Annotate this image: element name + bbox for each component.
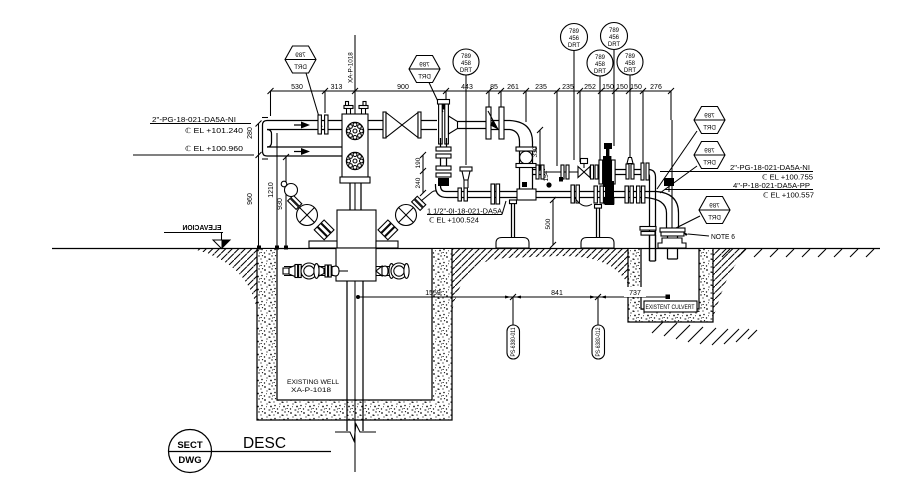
svg-text:330: 330 <box>532 146 539 157</box>
svg-text:ℂ EL +100.557: ℂ EL +100.557 <box>763 192 814 200</box>
hatch ticks along ground right <box>722 249 874 257</box>
instrument circle 789-456 DRT #1 <box>561 24 588 161</box>
vertical pipe with wafer valve <box>516 142 536 190</box>
existent culvert label box <box>644 301 697 312</box>
svg-text:252: 252 <box>584 84 596 91</box>
svg-text:313: 313 <box>331 84 343 91</box>
hatch wedge right of culvert <box>713 249 748 318</box>
wellhead centerline XA-P-1018 <box>348 35 356 472</box>
big header pipe y194 <box>452 192 656 198</box>
svg-text:900: 900 <box>397 84 409 91</box>
svg-text:EXISTENT CULVERT: EXISTENT CULVERT <box>646 304 695 311</box>
svg-text:4"-P-18-021-DA5A-PP: 4"-P-18-021-DA5A-PP <box>733 183 810 190</box>
small valve on header at 466 <box>460 167 472 188</box>
well casing below <box>347 281 363 431</box>
drain drop at 443 <box>436 138 453 198</box>
vertical dim 1210 <box>268 130 280 250</box>
wellhead flange bolts lower <box>346 152 363 169</box>
dimension labels top row <box>291 84 662 91</box>
capsule PS-6380-011 <box>507 297 520 359</box>
instrument circle 789-458 DRT #3 <box>587 50 613 168</box>
svg-text:150: 150 <box>630 84 642 91</box>
hatch band between pit and culvert <box>452 249 628 312</box>
riser support pad <box>658 238 686 248</box>
small valve at 630 <box>615 158 641 180</box>
svg-text:530: 530 <box>291 84 303 91</box>
svg-text:DRT: DRT <box>708 215 721 222</box>
instrument circle 789-458 DRT #4 <box>617 49 643 162</box>
svg-text:DRT: DRT <box>703 125 716 132</box>
section bubble SECT DWG <box>169 430 332 473</box>
svg-text:456: 456 <box>609 35 620 41</box>
hexagon tag 789 DRT right A <box>657 107 725 190</box>
hexagon tag 789 DRT #2 <box>409 56 443 113</box>
wellhead neck above lower body <box>350 183 361 210</box>
svg-text:ℂ EL +100.524: ℂ EL +100.524 <box>429 217 479 225</box>
svg-text:DRT: DRT <box>460 68 473 74</box>
svg-text:2"-PG-18-021-DA5A-NI: 2"-PG-18-021-DA5A-NI <box>152 117 236 124</box>
svg-text:789: 789 <box>609 28 620 34</box>
casing outlet left in pit <box>283 263 348 279</box>
existing well pit walls <box>257 249 452 420</box>
svg-text:458: 458 <box>595 62 606 68</box>
upper pipe left run <box>267 121 342 130</box>
casing outlet right in pit <box>376 263 409 279</box>
svg-text:240: 240 <box>415 177 422 188</box>
right line label 4-P-18-021-DA5A-PP <box>665 183 814 200</box>
svg-text:789: 789 <box>709 203 720 210</box>
DESC title <box>243 435 286 452</box>
svg-text:930: 930 <box>277 198 284 210</box>
left 45 deg wing valve <box>281 181 334 240</box>
svg-text:DRT: DRT <box>608 42 621 48</box>
svg-text:ℂ EL +101.240: ℂ EL +101.240 <box>185 127 243 135</box>
svg-text:1210: 1210 <box>268 182 275 198</box>
capsule PS-6380-012 <box>592 297 605 359</box>
hexagon tag 789 DRT #1 <box>285 46 322 127</box>
small bore line y172 <box>533 165 579 179</box>
casing break symbol <box>335 424 376 441</box>
svg-text:DRT: DRT <box>703 160 716 167</box>
right line label 2-PG-18-021-DA5A-NI <box>660 165 813 182</box>
vertical dims 190 240 at drain <box>415 152 426 196</box>
dim line 1559 841 737 <box>356 287 670 300</box>
reducer on upper pipe <box>449 116 487 135</box>
svg-text:960: 960 <box>247 193 254 205</box>
existing well text <box>287 379 340 394</box>
svg-text:PS-6380-011: PS-6380-011 <box>511 327 517 357</box>
flange pair on upper pipe <box>318 115 328 134</box>
orifice flange pair 85 <box>486 107 504 139</box>
elbow down to vertical pipe <box>504 121 533 143</box>
svg-text:235: 235 <box>562 84 574 91</box>
svg-text:DWG: DWG <box>178 455 201 466</box>
hexagon tag 789 DRT right C <box>672 197 730 231</box>
pipe support 2 <box>581 205 614 249</box>
note 6 <box>683 232 735 241</box>
svg-text:500: 500 <box>545 218 552 229</box>
svg-text:XA-P-1018: XA-P-1018 <box>291 387 332 394</box>
svg-text:ELEVACION: ELEVACION <box>183 223 222 232</box>
lower pipe left run <box>267 147 342 156</box>
svg-text:737: 737 <box>629 290 641 297</box>
svg-text:DRT: DRT <box>294 64 307 71</box>
svg-text:DRT: DRT <box>624 68 637 74</box>
svg-text:280: 280 <box>247 127 254 139</box>
flow arrow upper pipe <box>294 122 310 129</box>
svg-text:841: 841 <box>551 290 563 297</box>
svg-text:235: 235 <box>535 84 547 91</box>
svg-text:789: 789 <box>704 148 715 155</box>
svg-text:789: 789 <box>419 62 430 69</box>
svg-text:PS-6380-012: PS-6380-012 <box>596 327 602 357</box>
svg-text:ℂ EL +100.755: ℂ EL +100.755 <box>762 174 813 182</box>
svg-text:DESC: DESC <box>243 435 286 452</box>
instrument circle 789-458 DRT #5 <box>453 49 479 165</box>
gate valve right of wellhead <box>368 112 437 138</box>
svg-text:XA-P-1018: XA-P-1018 <box>348 52 355 83</box>
svg-text:276: 276 <box>650 84 662 91</box>
wellhead lower body in pit <box>336 210 376 281</box>
svg-text:85: 85 <box>490 84 498 91</box>
svg-text:789: 789 <box>595 55 606 61</box>
svg-text:261: 261 <box>507 84 519 91</box>
svg-text:2"-PG-18-021-DA5A-NI: 2"-PG-18-021-DA5A-NI <box>730 165 810 172</box>
header elbow to big riser <box>645 192 679 229</box>
big riser flange <box>660 228 685 259</box>
vertical dim 330 <box>532 127 550 181</box>
svg-text:ℂ EL +100.960: ℂ EL +100.960 <box>185 145 243 153</box>
elevation marker ELEVACION (mirrored) <box>164 223 230 249</box>
wellhead flange bolts upper <box>346 122 363 139</box>
flanged tee at 443 <box>438 100 450 145</box>
hexagon tag 789 DRT right B <box>660 142 725 194</box>
svg-text:789: 789 <box>704 113 715 120</box>
dimension extension lines <box>271 91 673 228</box>
svg-text:150: 150 <box>602 84 614 91</box>
svg-text:789: 789 <box>461 54 472 60</box>
svg-text:458: 458 <box>461 61 472 67</box>
svg-text:458: 458 <box>625 61 636 67</box>
vertical dim 500 <box>545 197 556 248</box>
pressure regulator <box>599 143 615 187</box>
relief valve on elbow <box>664 178 674 192</box>
left line label EL +100.960 <box>133 145 254 155</box>
top dimension line <box>271 90 672 92</box>
svg-text:456: 456 <box>569 36 580 42</box>
instrument circle 789-456 DRT #2 <box>601 23 628 147</box>
pipe supports <box>496 200 529 248</box>
hatch wedge left of well pit <box>193 249 257 311</box>
flow arrow lower pipe <box>294 148 310 155</box>
svg-text:NOTE 6: NOTE 6 <box>711 234 735 241</box>
ground line <box>52 248 880 250</box>
existent culvert walls <box>628 249 713 322</box>
wellhead top gauge valves <box>344 102 368 115</box>
svg-text:443: 443 <box>461 84 473 91</box>
svg-text:DRT: DRT <box>568 43 581 49</box>
vertical dim 280 and 960 <box>247 121 262 250</box>
vertical dim 930 <box>277 154 289 250</box>
svg-text:789: 789 <box>569 29 580 35</box>
hatch strokes below culvert bottom <box>652 322 757 345</box>
flanges and elbow down on small line <box>641 163 656 261</box>
svg-text:SECT: SECT <box>177 440 203 451</box>
svg-text:DRT: DRT <box>594 69 607 75</box>
left return bend <box>262 118 272 160</box>
label 1 1/2-0I-18-021-DA5A <box>427 201 506 225</box>
svg-text:789: 789 <box>295 52 306 59</box>
header flanges <box>458 181 645 206</box>
wellhead body <box>340 114 370 183</box>
svg-text:150: 150 <box>616 84 628 91</box>
small riser flange <box>640 227 656 262</box>
right 45 deg wing valve <box>378 191 437 240</box>
left line label 2-PG-18-021-DA5A-NI <box>150 117 251 135</box>
svg-text:EXISTING WELL: EXISTING WELL <box>287 379 340 386</box>
svg-text:DRT: DRT <box>418 74 431 81</box>
concrete pads at grade <box>309 241 398 248</box>
svg-text:1559: 1559 <box>425 290 441 297</box>
svg-text:190: 190 <box>415 157 422 168</box>
globe valve on small line <box>559 159 598 182</box>
svg-text:789: 789 <box>625 54 636 60</box>
dimension ticks <box>268 88 675 94</box>
